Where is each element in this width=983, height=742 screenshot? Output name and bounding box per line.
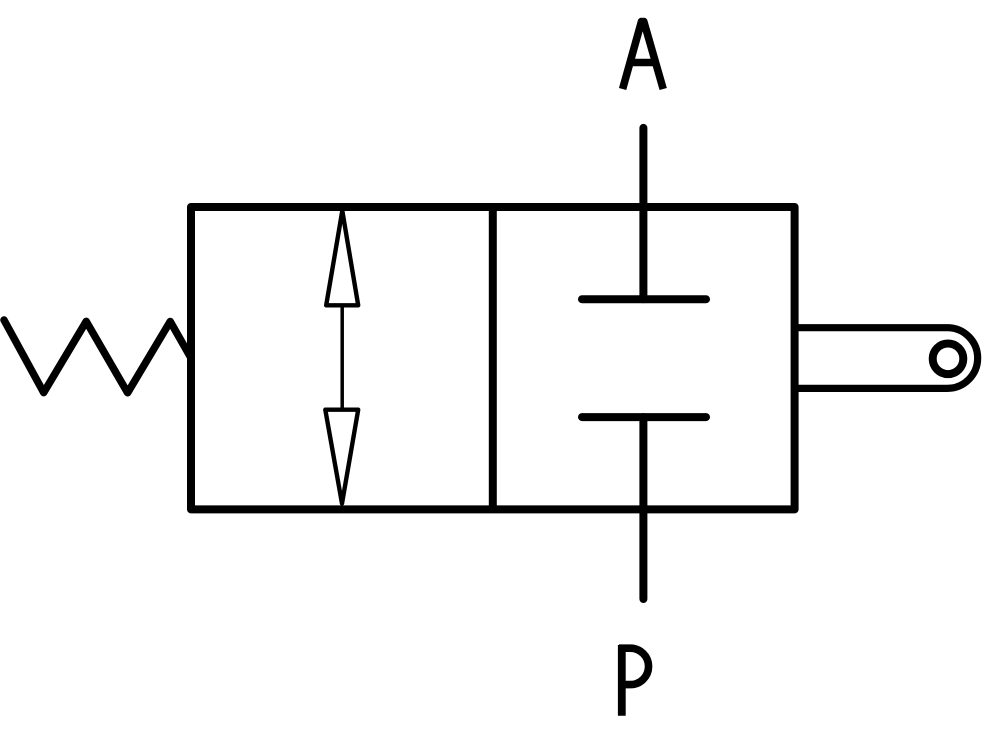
port A line xyxy=(639,128,647,299)
blocked port bar (top, under A) xyxy=(582,295,706,303)
valve body (two-position envelope) xyxy=(191,207,795,509)
label A (port A) xyxy=(623,22,664,90)
flow-path double arrow: upper arrowhead xyxy=(326,211,358,305)
flow-path double arrow: lower arrowhead xyxy=(325,410,358,504)
roller circle xyxy=(933,344,964,375)
spring (return spring, left side) xyxy=(4,320,191,393)
label P (port P) xyxy=(619,645,649,716)
blocked port bar (bottom, above P) xyxy=(582,413,706,421)
port P line xyxy=(639,417,647,599)
position divider xyxy=(489,207,497,509)
plunger / roller actuator stem (stadium shape, right side) xyxy=(795,328,978,389)
flow-path double arrow: connecting line xyxy=(340,303,344,412)
